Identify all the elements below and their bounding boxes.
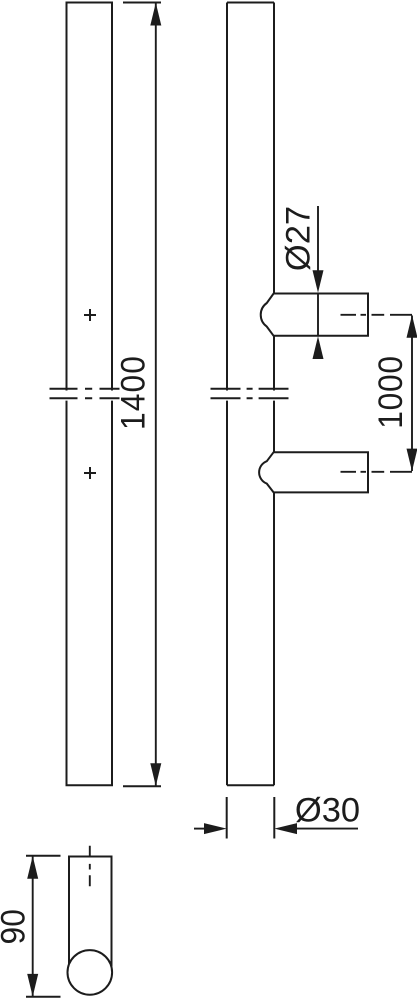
right bar break line lower xyxy=(211,397,289,399)
dimension Ø30 right tail xyxy=(297,828,358,830)
dimension Ø30 left tail xyxy=(194,828,204,830)
dimension 90 line xyxy=(32,856,34,996)
dimension Ø27 line through support xyxy=(317,294,319,336)
dimension 90 arrow up xyxy=(27,856,38,879)
right bar left edge lower xyxy=(226,401,228,786)
svg-text:1400: 1400 xyxy=(114,355,153,430)
right bar bottom edge xyxy=(227,784,274,786)
left bar break line upper xyxy=(50,388,120,390)
svg-text:90: 90 xyxy=(0,909,33,944)
dimension 1400 line xyxy=(155,3,157,786)
dimension 1400 arrow up xyxy=(150,3,161,26)
dimension 1000 arrow down xyxy=(407,449,417,472)
right bar top edge xyxy=(227,2,274,4)
svg-text:Ø30: Ø30 xyxy=(295,792,360,830)
support 1 center line (dash-dot) xyxy=(341,314,413,316)
bottom view: support cylinder rectangle xyxy=(69,857,112,967)
dimension 90 bottom extension line xyxy=(26,996,61,998)
dimension 1000 line xyxy=(411,316,413,472)
dimension 1400 arrow down xyxy=(150,763,161,786)
dimension Ø30 arrow right xyxy=(204,823,227,834)
center mark + upper xyxy=(84,309,96,321)
left bar lower part xyxy=(67,401,113,786)
svg-text:Ø27: Ø27 xyxy=(280,206,318,271)
bottom view: support center line (dash-dot) xyxy=(89,846,91,887)
right bar break line upper xyxy=(211,388,289,390)
dimension 1400 bottom extension line xyxy=(123,785,161,787)
dimension 90 arrow down xyxy=(27,974,38,997)
left bar break line lower xyxy=(50,397,120,399)
right bar (side view) left edge upper xyxy=(226,3,228,391)
dimension 90 top extension line xyxy=(26,855,61,857)
support 2 (lower mounting post) outline xyxy=(259,452,368,492)
svg-text:1000: 1000 xyxy=(372,355,411,429)
dimension Ø27 leader line xyxy=(317,206,319,271)
dimension 1000 arrow up xyxy=(407,315,417,338)
bottom view: grip tube circle xyxy=(68,950,113,995)
dimension Ø30 left extension line xyxy=(226,797,228,839)
dimension Ø27 arrow down (to support top) xyxy=(313,270,324,293)
left bar (front view of pull handle tube) upper part xyxy=(67,3,113,391)
dimension Ø27 arrow up (to support bottom) xyxy=(313,336,324,359)
center mark + lower xyxy=(84,467,96,479)
dimension Ø30 right extension line xyxy=(273,797,275,839)
right bar right edge segments xyxy=(273,3,275,786)
dimension 1400 top extension line xyxy=(123,2,161,4)
support 1 (upper mounting post) outline xyxy=(261,294,368,336)
support 2 center line (dash-dot) xyxy=(341,471,413,473)
dimension Ø30 arrow left xyxy=(274,823,297,834)
